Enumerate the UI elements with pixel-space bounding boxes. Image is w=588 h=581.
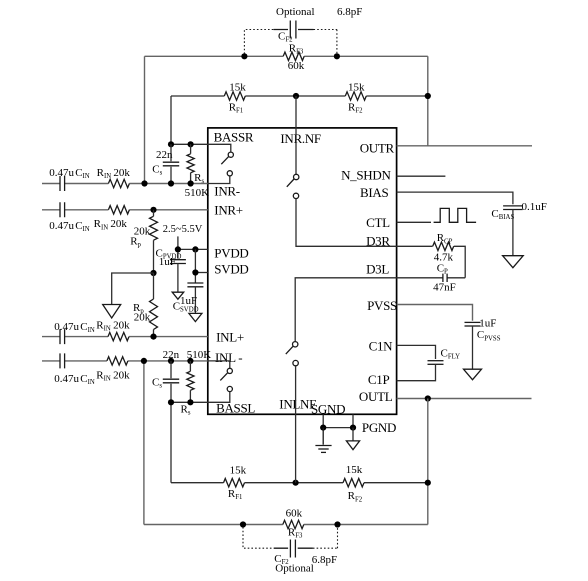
wire PGND stub — [352, 414, 354, 427]
node dot bottom rail right (CF2 tap) — [334, 521, 340, 527]
svg-text:Optional: Optional — [276, 6, 315, 18]
svg-text:6.8pF: 6.8pF — [337, 6, 362, 18]
node dot Rp midpoint — [150, 270, 156, 276]
node dot top rail left (CF2 tap) — [241, 53, 247, 59]
wire BASSR pin to junctions and into IC to switch — [171, 144, 231, 152]
wire PGND to ground triangle — [352, 428, 354, 441]
ground CPVDD — [172, 292, 184, 299]
svg-text:BASSL: BASSL — [216, 401, 255, 416]
wire OUTL output — [397, 398, 532, 400]
capacitor CIN (INL-) 0.47u — [60, 353, 65, 368]
resistor RIN (INL+) 20k — [108, 332, 129, 340]
svg-text:15k: 15k — [230, 465, 247, 477]
capacitor CSVDD (1uF) — [187, 282, 203, 284]
wire left vertical from INL- down to bottom rail — [143, 361, 145, 525]
wire CPVDD to ground — [177, 264, 179, 293]
svg-text:D3L: D3L — [366, 262, 389, 277]
svg-text:22n: 22n — [163, 349, 180, 361]
node dot SGND — [320, 425, 326, 431]
svg-text:INR-: INR- — [214, 184, 240, 199]
svg-text:60k: 60k — [288, 60, 305, 72]
node dot INR- / Cs — [168, 180, 174, 186]
capacitor CPVDD (1uF) — [170, 259, 186, 261]
svg-text:20k: 20k — [110, 218, 127, 230]
wire CSVDD to ground — [194, 287, 196, 314]
wire 15k feedback row bottom — [171, 482, 428, 484]
resistor RF2 bottom (15k) — [343, 479, 364, 487]
capacitor CIN (INL+) 0.47u — [60, 329, 65, 344]
resistor RCP (4.7k) — [433, 242, 454, 250]
svg-text:OUTL: OUTL — [359, 389, 393, 404]
node dot INR- / Rs — [188, 180, 194, 186]
wire OUTR output — [397, 145, 532, 147]
wire CTL stub — [397, 221, 431, 223]
wire 15k feedback row (right channel) — [171, 95, 428, 97]
capacitor CIN (INR+) 0.47u — [60, 202, 65, 217]
resistor RF1 top (15k) — [224, 92, 245, 100]
svg-text:15k: 15k — [346, 464, 363, 476]
node dot PVDD/SVDD branch — [192, 246, 198, 252]
wire BASSL pin to junctions and into IC to switch — [171, 392, 230, 403]
wire right vertical from top rail down to OUTR — [427, 56, 429, 146]
node dot PVDD/supply — [175, 246, 181, 252]
svg-text:0.47u: 0.47u — [54, 321, 79, 333]
svg-text:60k: 60k — [286, 507, 303, 519]
resistor RIN (INR+) 20k — [108, 206, 129, 214]
signal ground symbol (SGND) — [315, 428, 331, 453]
svg-text:SVDD: SVDD — [214, 261, 248, 276]
svg-text:Optional: Optional — [275, 563, 314, 575]
wire D3R to RCP — [397, 246, 466, 277]
svg-text:SGND: SGND — [311, 401, 345, 416]
wire INLNF from switch down to bottom 15k row — [295, 366, 297, 483]
wire input INL+ line — [42, 336, 208, 338]
wire BIAS to CBIAS — [397, 192, 513, 204]
switch SW3 INLNF/D3L — [286, 342, 299, 366]
wire CBIAS to ground — [512, 210, 514, 256]
wire bottom 15k row left vertical up to BASSL — [170, 402, 172, 482]
svg-text:0.47u: 0.47u — [49, 220, 74, 232]
switch SW1 BASSR/INR- — [221, 152, 233, 176]
wire CFLY to C1P — [397, 364, 436, 380]
node dot bottom 15k row / INLNF junction — [293, 480, 299, 486]
wire input INR+ line — [42, 209, 208, 211]
resistor RF3 top (60k) — [283, 52, 304, 60]
svg-text:0.1uF: 0.1uF — [522, 201, 547, 213]
resistor Rp lower (20k) — [153, 273, 155, 337]
svg-text:PVSS: PVSS — [367, 298, 397, 313]
resistor Rp upper (20k) — [153, 210, 155, 273]
wire right vertical OUTL down to bottom rail — [427, 399, 429, 525]
op-amp U1 (stereo audio amplifier IC body) — [208, 128, 397, 414]
ground CPVSS — [464, 369, 482, 380]
svg-text:20k: 20k — [113, 369, 130, 381]
node dot INL- / feedback vertical — [141, 358, 147, 364]
svg-text:PGND: PGND — [362, 420, 396, 435]
node dot SVDD — [192, 269, 198, 275]
svg-text:INR+: INR+ — [214, 203, 243, 218]
node dot 15k row / INR.NF junction — [293, 93, 299, 99]
capacitor CBIAS (0.1uF) — [503, 205, 522, 207]
ground CBIAS — [503, 256, 524, 268]
svg-text:47nF: 47nF — [433, 282, 456, 294]
svg-text:1uF: 1uF — [479, 318, 496, 330]
wire SGND-PGND link — [323, 427, 353, 429]
wire left vertical from top rail down to INR- node — [144, 56, 146, 183]
node dot INL- / Rs — [187, 358, 193, 364]
wire PVSS to CPVSS — [397, 305, 473, 321]
svg-text:1uF: 1uF — [159, 256, 176, 268]
svg-text:2.5~5.5V: 2.5~5.5V — [163, 224, 203, 235]
wire SVDD pin — [195, 272, 207, 274]
svg-text:C1P: C1P — [368, 372, 390, 387]
capacitor CF2 top (optional 6.8pF, dotted hookup) — [244, 21, 337, 55]
wire 15k row left vertical down to BASSR — [170, 96, 172, 144]
svg-text:INR.NF: INR.NF — [280, 131, 321, 146]
svg-text:PVDD: PVDD — [214, 246, 248, 261]
wire SVDD branch vertical — [194, 249, 196, 283]
svg-text:0.47u: 0.47u — [54, 373, 79, 385]
svg-text:CTL: CTL — [366, 215, 390, 230]
capacitor Cs bottom (22n) — [170, 361, 172, 402]
svg-text:15k: 15k — [348, 81, 365, 93]
node dot PGND — [350, 425, 356, 431]
svg-text:INL -: INL - — [215, 350, 242, 365]
node dot bottom 15k row right — [425, 480, 431, 486]
square-wave symbol at CTL — [434, 208, 477, 222]
ground PGND — [346, 441, 359, 450]
wire INR- inside IC to switch — [208, 176, 230, 184]
svg-text:BASSR: BASSR — [214, 130, 254, 145]
resistor RF2 top (15k) — [345, 92, 366, 100]
resistor RIN (INL-) 20k — [107, 357, 128, 365]
svg-text:OUTR: OUTR — [360, 140, 395, 155]
wire D3L pin to switch SW3 — [295, 278, 396, 342]
svg-text:N_SHDN: N_SHDN — [341, 167, 391, 182]
svg-text:510K: 510K — [187, 349, 212, 361]
wire C1N to CFLY — [397, 345, 436, 359]
svg-text:20k: 20k — [113, 167, 130, 179]
wire SGND stub — [322, 414, 324, 427]
node dot BASSR/Rs — [188, 141, 194, 147]
capacitor CFLY — [428, 360, 444, 362]
wire supply input stub — [177, 236, 179, 258]
svg-text:INL+: INL+ — [216, 329, 244, 344]
svg-text:15k: 15k — [229, 81, 246, 93]
capacitor CIN (INR-) 0.47u — [60, 176, 65, 191]
wire PVDD pin — [178, 248, 208, 250]
wire switch SW2 to D3R pin — [296, 199, 397, 247]
node dot top rail right (CF2 tap) — [334, 53, 340, 59]
svg-text:510K: 510K — [185, 187, 210, 199]
resistor Rs bottom (510K) — [189, 361, 191, 402]
wire INR.NF from 15k row into IC to switch — [295, 96, 297, 174]
wire D3L to CP — [397, 277, 466, 279]
wire top 60k feedback rail — [145, 55, 428, 57]
resistor RF1 bottom (15k) — [224, 479, 245, 487]
ground left (bias) — [103, 305, 121, 319]
switch SW4 INL-/BASSL — [220, 368, 232, 391]
resistor RIN (INR-) 20k — [108, 179, 129, 187]
resistor RF3 bottom (60k) — [283, 520, 304, 528]
wire input INL- line — [42, 360, 208, 362]
node dot BASSL/Rs — [187, 399, 193, 405]
node dot INR+ / Rp — [150, 207, 156, 213]
capacitor Cs top (22n) — [170, 144, 172, 183]
svg-text:0.47u: 0.47u — [49, 167, 74, 179]
node dot INR- / feedback vertical — [141, 180, 147, 186]
svg-text:6.8pF: 6.8pF — [312, 554, 337, 566]
node dot BASSL/Cs — [168, 399, 174, 405]
node dot INL- / Cs — [168, 358, 174, 364]
svg-text:BIAS: BIAS — [360, 185, 388, 200]
svg-text:C1N: C1N — [369, 339, 394, 354]
wire N_SHDN stub — [397, 175, 446, 177]
wire CPVSS to ground — [472, 326, 474, 369]
svg-text:1uF: 1uF — [180, 295, 197, 307]
switch SW2 INR.NF/D3R — [287, 174, 299, 198]
wire input INR- line — [42, 183, 208, 185]
wire bottom 60k feedback rail — [144, 524, 428, 526]
resistor Rs top (510K) — [190, 144, 192, 183]
svg-text:20k: 20k — [113, 320, 130, 332]
capacitor CPVSS (1uF) — [465, 321, 481, 323]
wire INL- inside IC to switch — [208, 361, 230, 368]
node dot INL+ / Rp — [150, 334, 156, 340]
node dot BASSR/Cs — [168, 141, 174, 147]
node dot bottom rail left (CF2 tap) — [240, 521, 246, 527]
node dot OUTL feedback tap — [425, 395, 431, 401]
ground CSVDD — [189, 313, 202, 321]
capacitor CF2 bottom (optional 6.8pF, dotted hookup) — [243, 527, 338, 558]
node dot 15k row meets right vertical — [425, 93, 431, 99]
svg-text:20k: 20k — [134, 312, 151, 324]
capacitor CP (47nF) — [443, 274, 447, 282]
svg-text:22n: 22n — [156, 149, 173, 161]
wire Rp midpoint to left ground — [112, 273, 154, 305]
